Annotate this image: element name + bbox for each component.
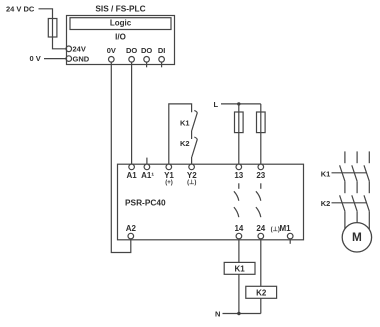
svg-text:(⊥): (⊥) — [271, 226, 280, 233]
terminal A1 prime — [146, 158, 148, 165]
phase mid lead 1 — [344, 181, 346, 193]
motor phase lead 1 — [344, 151, 346, 163]
fuse F3 — [257, 112, 266, 133]
wire N — [223, 313, 261, 315]
svg-text:(+): (+) — [165, 180, 173, 186]
contact K1 feedback — [192, 110, 197, 130]
contactor K1 linkage — [332, 172, 367, 174]
contactor K1 blades — [340, 165, 370, 181]
terminal Y2 — [189, 164, 195, 170]
svg-text:PSR-PC40: PSR-PC40 — [125, 198, 166, 208]
svg-text:K1: K1 — [321, 169, 331, 178]
motor phase lead 3 — [368, 151, 370, 163]
svg-text:K1: K1 — [234, 265, 245, 274]
terminal M1 — [287, 233, 293, 239]
wire DO to A1 — [131, 62, 133, 164]
svg-text:DO: DO — [141, 46, 152, 55]
wire between feedback contacts — [191, 130, 193, 139]
coil K1 — [224, 262, 255, 274]
terminal Y1 — [166, 164, 172, 170]
wire 0V to A2 — [111, 62, 131, 252]
svg-text:A2: A2 — [126, 224, 137, 233]
svg-text:DO: DO — [126, 46, 137, 55]
terminal 24 — [258, 233, 264, 239]
wire L to 23 — [260, 104, 262, 164]
contact K2 feedback — [192, 137, 198, 164]
terminal A2 — [128, 233, 134, 239]
wire 0V feed — [44, 58, 66, 60]
feedback loop wire Y1 to contacts — [169, 104, 192, 164]
svg-text:DI: DI — [158, 46, 166, 55]
phase bottom lead 1 — [344, 211, 346, 229]
svg-text:K2: K2 — [321, 199, 331, 208]
Logic sub-block — [70, 18, 171, 30]
motor phase lead 2 — [356, 151, 358, 163]
svg-text:24V: 24V — [73, 45, 86, 54]
stub below M1 — [289, 239, 291, 244]
wire 24V feed — [39, 9, 66, 49]
svg-text:Y1: Y1 — [164, 171, 174, 180]
svg-text:0V: 0V — [107, 46, 116, 55]
svg-text:M1: M1 — [280, 224, 292, 233]
terminal 13 — [236, 164, 242, 170]
svg-text:K1: K1 — [180, 118, 190, 127]
svg-text:0 V: 0 V — [30, 54, 41, 63]
junction on L line — [237, 102, 240, 105]
phase mid lead 3 — [368, 181, 370, 193]
motor M — [342, 223, 371, 252]
coil K2 — [246, 286, 277, 298]
terminal 24V — [66, 46, 72, 52]
wire L feed — [221, 103, 261, 105]
svg-text:M: M — [352, 230, 362, 244]
svg-text:A1¹: A1¹ — [141, 171, 154, 180]
svg-text:24 V DC: 24 V DC — [6, 5, 35, 14]
wire L to 13 — [238, 104, 240, 164]
phase bottom lead 3 — [368, 211, 370, 229]
svg-text:I/O: I/O — [115, 33, 126, 42]
svg-text:13: 13 — [234, 171, 243, 180]
svg-text:K2: K2 — [180, 139, 190, 148]
terminal 14 — [236, 233, 242, 239]
svg-text:14: 14 — [234, 224, 243, 233]
svg-text:Y2: Y2 — [187, 171, 197, 180]
svg-text:A1: A1 — [126, 171, 137, 180]
stub below DI — [161, 62, 163, 67]
fuse F2 — [235, 112, 244, 133]
svg-text:SIS / FS-PLC: SIS / FS-PLC — [95, 4, 145, 14]
wire 24 to N — [260, 239, 262, 314]
svg-text:K2: K2 — [256, 289, 267, 298]
terminal A1 — [129, 164, 135, 170]
svg-text:23: 23 — [256, 171, 265, 180]
contactor K2 linkage — [332, 202, 367, 204]
internal contact 13-14 — [238, 183, 240, 189]
internal contact 23-24 — [260, 183, 262, 189]
svg-text:GND: GND — [73, 55, 90, 64]
wire 14 to N — [238, 239, 240, 314]
svg-text:N: N — [215, 310, 220, 319]
svg-text:L: L — [214, 100, 219, 109]
safety relay PSR-PC40 box — [118, 164, 304, 240]
terminal GND — [66, 56, 72, 62]
terminal 23 — [258, 164, 264, 170]
phase mid lead 2 — [356, 181, 358, 193]
junction on N line — [237, 312, 240, 315]
contactor K2 blades — [340, 195, 370, 211]
svg-text:24: 24 — [256, 224, 265, 233]
svg-text:Logic: Logic — [110, 19, 132, 28]
fuse F1 — [48, 19, 57, 38]
phase bottom lead 2 — [356, 211, 358, 222]
stub below DO 2 — [146, 62, 148, 67]
svg-text:(⊥): (⊥) — [187, 179, 196, 186]
